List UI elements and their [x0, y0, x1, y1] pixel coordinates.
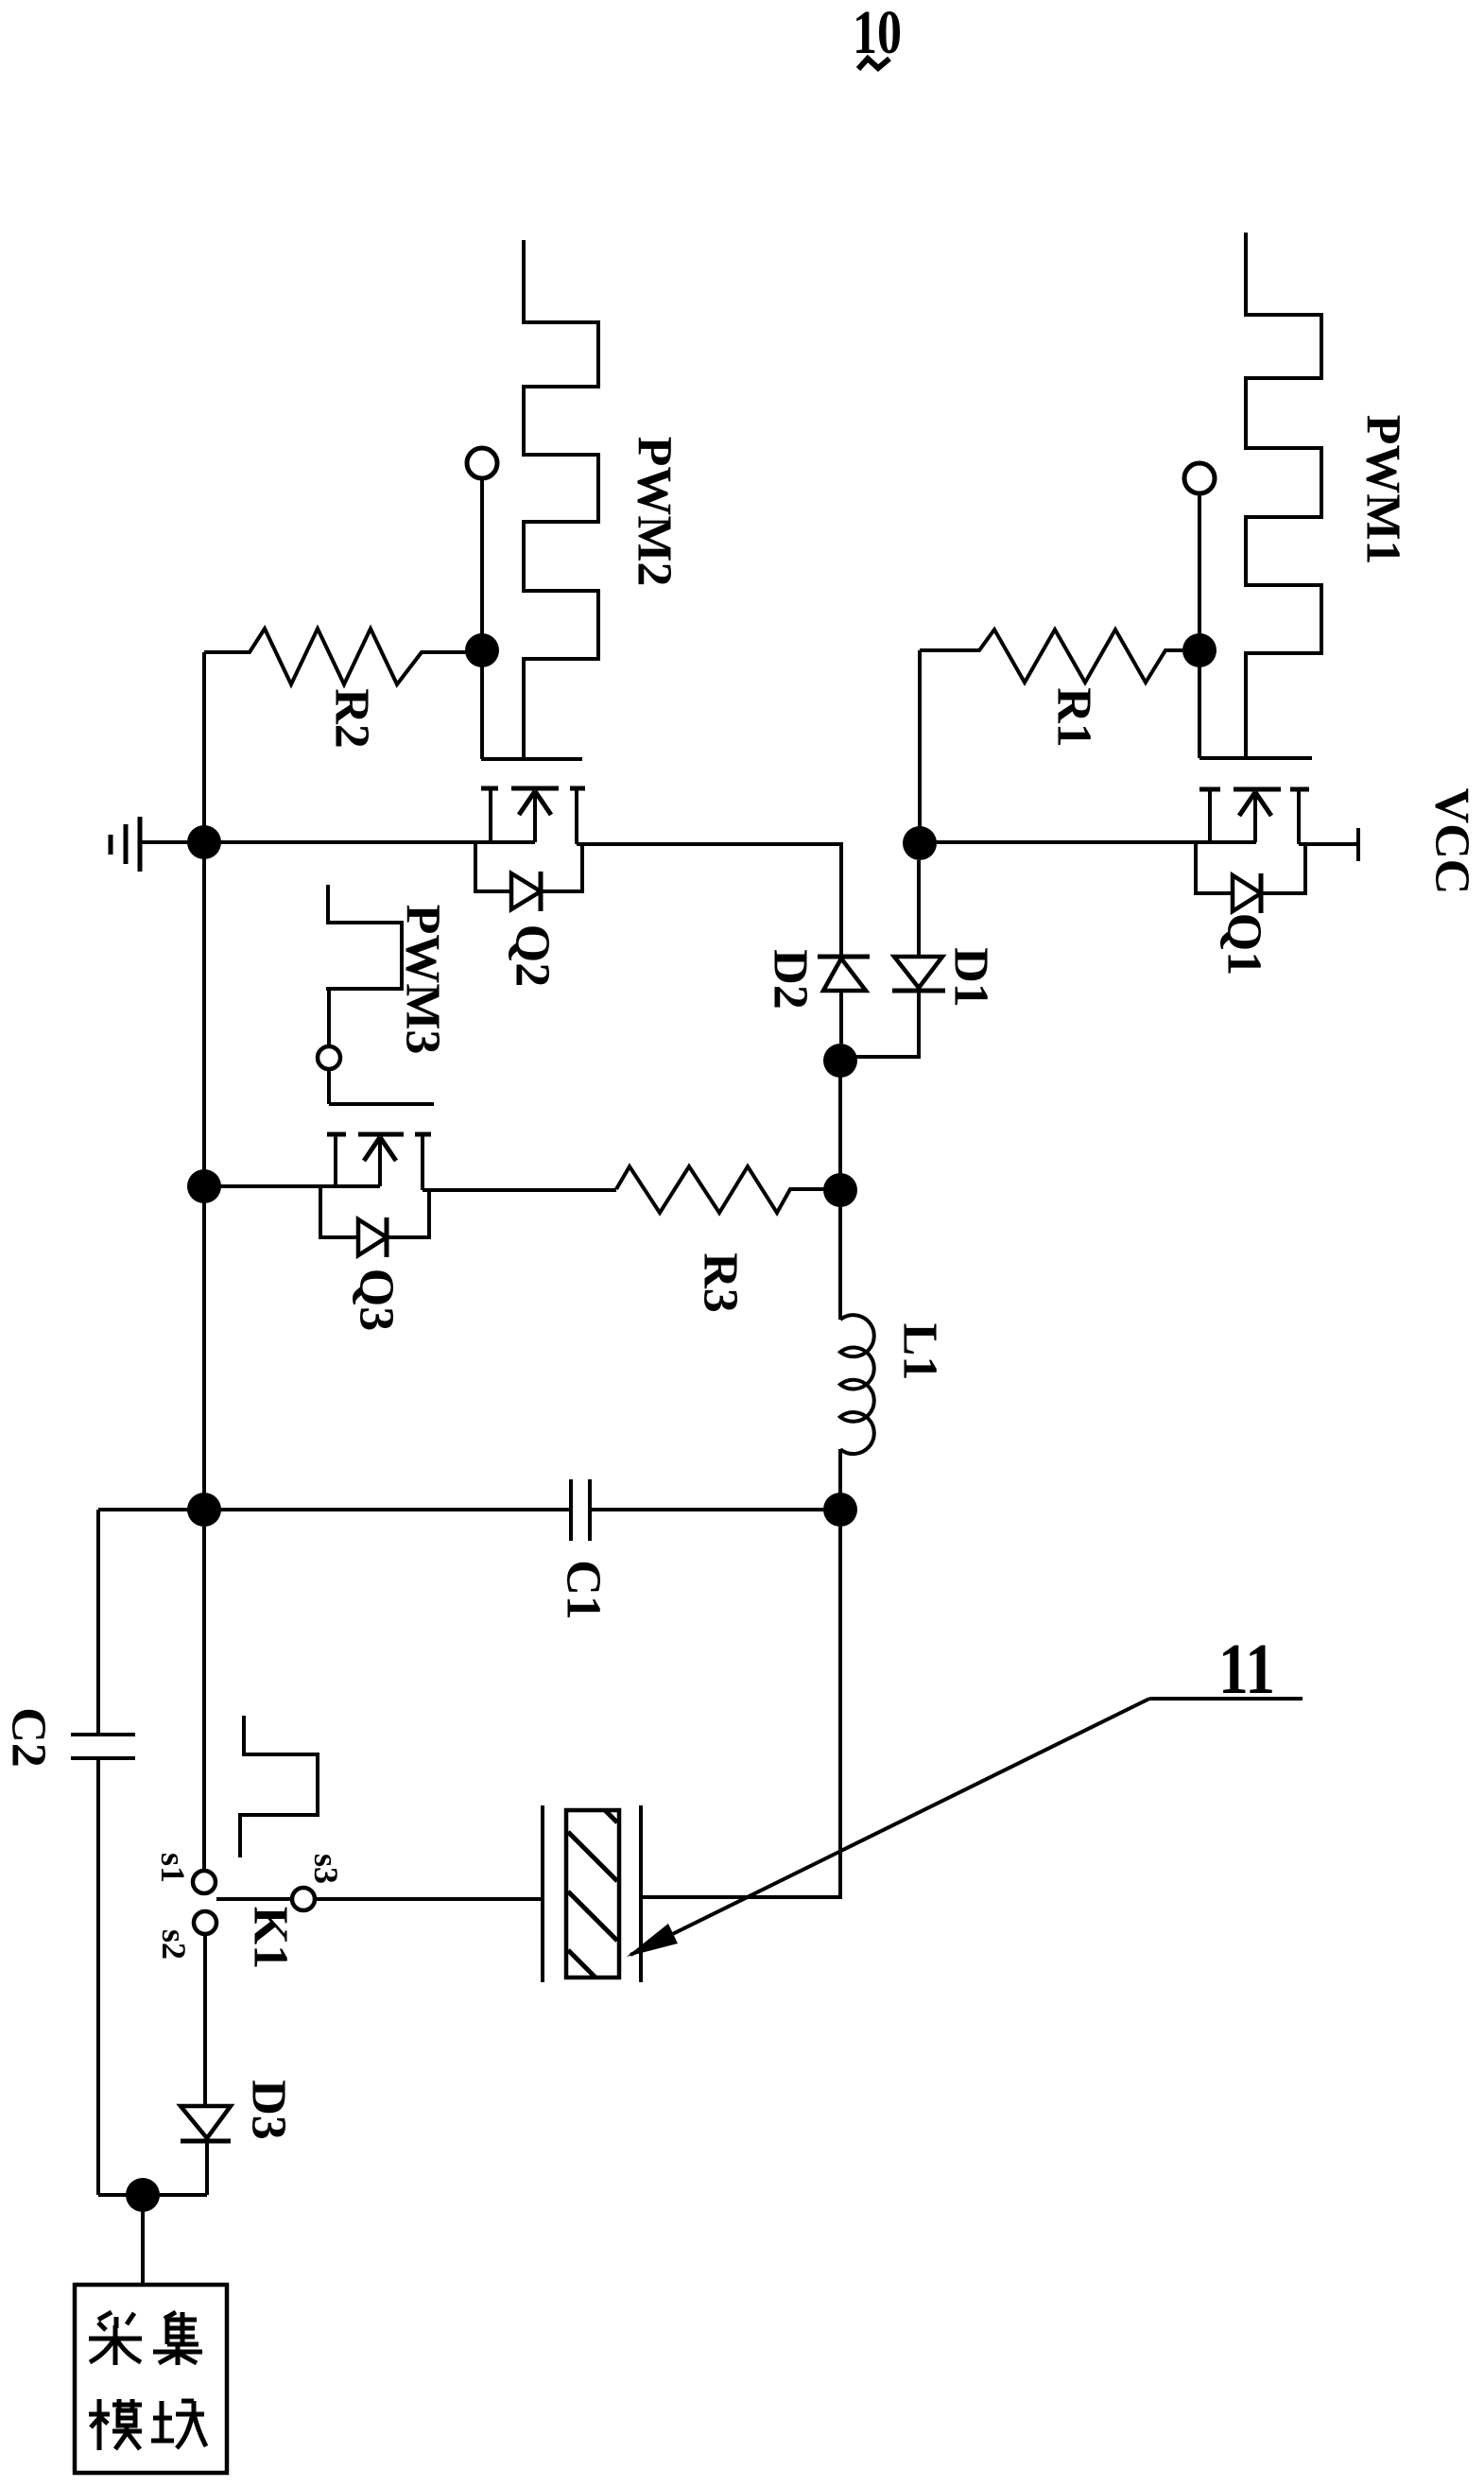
svg-text:L1: L1: [893, 1323, 947, 1381]
svg-text:s3: s3: [307, 1854, 345, 1884]
node dot D1 D2 junction: [823, 1044, 857, 1078]
wire bottom node: [98, 2193, 207, 2197]
svg-text:R3: R3: [694, 1252, 748, 1313]
hanzi cai: [89, 2312, 142, 2365]
pulse signal K1: [240, 1716, 318, 1857]
node dot C1 right: [823, 1493, 857, 1527]
node dot ground: [187, 825, 221, 859]
PWM2 waveform: [524, 240, 598, 757]
svg-text:s2: s2: [155, 1929, 193, 1960]
terminal VCC: [1356, 828, 1360, 861]
signal PWM3: [326, 885, 402, 989]
resistor R3: [616, 1166, 824, 1213]
svg-text:s1: s1: [154, 1853, 192, 1883]
resistor R1: [920, 630, 1184, 682]
wire Q3 drain bus: [423, 1188, 616, 1192]
diode D1: [856, 860, 945, 1057]
svg-text:R2: R2: [325, 688, 379, 749]
svg-text:D1: D1: [944, 947, 998, 1008]
wire center column: [838, 1061, 842, 1320]
node dot Q1 source bus: [903, 826, 937, 860]
wire Q3 source bus: [204, 1184, 380, 1188]
svg-text:Q1: Q1: [1217, 913, 1271, 976]
wire to module box: [141, 2195, 145, 2285]
wire PWM3 to Q3 gate: [327, 989, 331, 1104]
wire s2 to D3: [203, 1934, 207, 2106]
wire Q1 source bus: [920, 840, 1256, 844]
ground: [111, 817, 140, 872]
svg-text:VCC: VCC: [1425, 788, 1479, 895]
node dot bottom: [126, 2178, 160, 2212]
svg-text:PWM2: PWM2: [628, 437, 682, 587]
resistor R2: [204, 629, 466, 684]
wire left rail: [202, 652, 206, 1871]
inductor L1: [840, 1315, 874, 1454]
node dot C1 left: [187, 1493, 221, 1527]
svg-text:K1: K1: [244, 1907, 298, 1969]
switch K1: [193, 1871, 315, 1934]
svg-text:D3: D3: [242, 2080, 296, 2140]
svg-text:Q3: Q3: [350, 1269, 404, 1331]
terminal circle PWM1: [1184, 463, 1215, 493]
hanzi mo: [89, 2399, 142, 2450]
svg-text:Q2: Q2: [506, 924, 560, 987]
svg-text:C2: C2: [2, 1707, 56, 1768]
transistor Q1: [1196, 758, 1312, 913]
transistor Q2: [475, 759, 585, 911]
transistor Q3: [320, 1104, 434, 1257]
wire gate Q1: [1198, 493, 1201, 758]
wire transducer right: [641, 1526, 840, 1897]
body diode Q3: [320, 1186, 358, 1237]
box acquisition module: [75, 2285, 227, 2473]
node dot Q3 bus: [187, 1169, 221, 1203]
capacitor C1: [98, 1479, 840, 1541]
node dot R3 junction: [823, 1173, 857, 1207]
svg-text:10: 10: [853, 0, 902, 67]
svg-text:D2: D2: [764, 949, 818, 1010]
transducer element 11: [543, 1805, 641, 1982]
wire Q2 drain bus: [577, 844, 841, 957]
wire L1 bottom: [838, 1449, 842, 1510]
terminal circle PWM2: [467, 448, 497, 478]
body diode Q2: [475, 842, 511, 891]
wire ground bus: [140, 840, 535, 844]
label 10: [853, 0, 902, 69]
label 11 with leader arrow: [627, 1630, 1303, 1957]
svg-text:C1: C1: [557, 1560, 611, 1620]
hanzi kuai: [151, 2401, 206, 2448]
terminal circle PWM3: [318, 1046, 340, 1069]
hanzi ji: [153, 2312, 202, 2365]
svg-text:R1: R1: [1047, 687, 1101, 748]
wire Q1 drain to VCC: [1299, 842, 1358, 846]
capacitor C2: [71, 1510, 135, 2195]
svg-text:PWM3: PWM3: [396, 905, 450, 1055]
body diode Q1: [1196, 842, 1233, 893]
wire s3 to transducer: [315, 1897, 543, 1901]
wire gate Q2: [480, 478, 484, 759]
wire R1 left: [918, 650, 922, 843]
svg-text:PWM1: PWM1: [1356, 415, 1410, 565]
diode D2: [818, 957, 870, 1044]
diode D3: [181, 2106, 231, 2195]
node dot Q2 gate / R2: [465, 633, 499, 667]
node dot Q1 gate / R1: [1182, 633, 1217, 667]
PWM1 waveform: [1246, 233, 1321, 756]
